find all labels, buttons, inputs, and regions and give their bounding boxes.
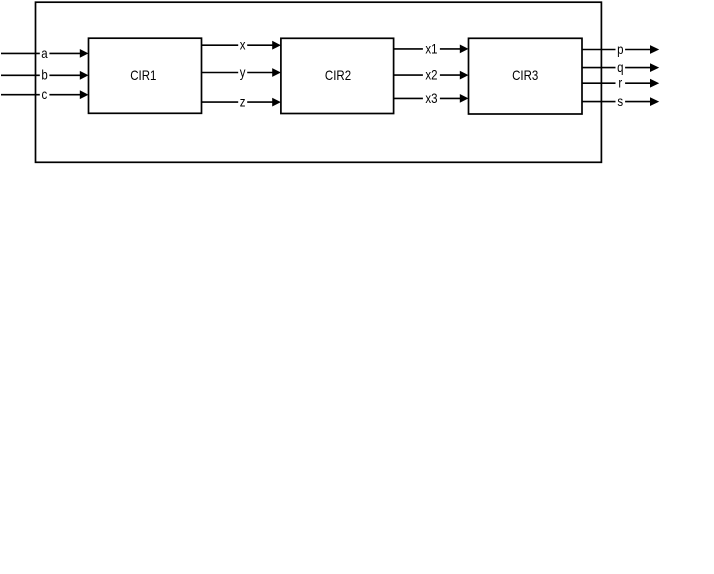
- svg-text:r: r: [618, 74, 622, 90]
- svg-text:CIR2: CIR2: [325, 67, 351, 83]
- svg-text:p: p: [617, 41, 623, 57]
- svg-text:s: s: [617, 93, 623, 109]
- wire y (CIR1 to CIR2, with arrowhead): [202, 64, 281, 80]
- wire p (output of CIR3, with arrowhead): [582, 41, 659, 57]
- svg-text:b: b: [41, 67, 47, 83]
- svg-text:x2: x2: [425, 66, 437, 82]
- system boundary box: [36, 2, 602, 162]
- svg-text:x3: x3: [425, 90, 437, 106]
- block CIR1: [89, 38, 202, 113]
- wire r (output of CIR3, with arrowhead): [582, 74, 659, 90]
- block CIR3: [469, 38, 583, 114]
- wire s (output of CIR3, with arrowhead): [582, 93, 659, 109]
- wire x (CIR1 to CIR2, with arrowhead): [202, 36, 281, 52]
- svg-text:CIR1: CIR1: [130, 67, 156, 83]
- svg-text:q: q: [617, 59, 623, 75]
- svg-text:y: y: [240, 64, 246, 80]
- svg-text:x: x: [240, 36, 246, 52]
- svg-text:CIR3: CIR3: [512, 67, 538, 83]
- wire x2 (CIR2 to CIR3, with arrowhead): [394, 66, 469, 82]
- wire x1 (CIR2 to CIR3, with arrowhead): [394, 40, 469, 56]
- wire q (output of CIR3, with arrowhead): [582, 59, 659, 75]
- svg-text:x1: x1: [425, 40, 437, 56]
- wire a (input, with arrowhead into CIR1): [1, 45, 89, 61]
- wire z (CIR1 to CIR2, with arrowhead): [202, 93, 281, 109]
- svg-text:a: a: [41, 45, 48, 61]
- svg-text:z: z: [240, 93, 246, 109]
- svg-text:c: c: [42, 86, 48, 102]
- wire c (input, with arrowhead into CIR1): [1, 86, 89, 102]
- wire x3 (CIR2 to CIR3, with arrowhead): [394, 90, 469, 106]
- wire b (input, with arrowhead into CIR1): [1, 67, 89, 83]
- block CIR2: [281, 38, 394, 113]
